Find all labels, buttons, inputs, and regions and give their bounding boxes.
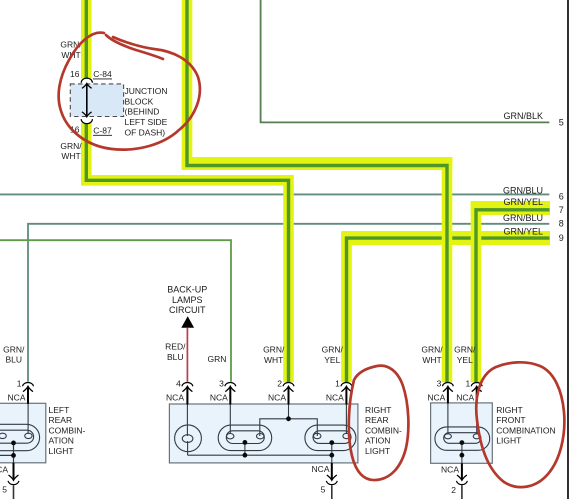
svg-text:LEFT: LEFT	[49, 405, 70, 415]
svg-text:2: 2	[277, 378, 282, 388]
svg-text:1: 1	[465, 378, 470, 388]
right rear lamp stadium 2	[305, 425, 356, 451]
svg-text:BLOCK: BLOCK	[125, 96, 154, 106]
svg-text:LAMPS: LAMPS	[172, 295, 203, 305]
left rear combination light box	[0, 403, 46, 463]
svg-text:YEL: YEL	[457, 355, 473, 365]
svg-text:WHT: WHT	[422, 355, 441, 365]
svg-text:16: 16	[70, 69, 80, 79]
left rear lamp stadium	[0, 403, 40, 463]
svg-text:REAR: REAR	[49, 415, 73, 425]
svg-text:NCA: NCA	[166, 393, 184, 403]
svg-text:ATION: ATION	[365, 436, 390, 446]
svg-text:NCA: NCA	[427, 393, 445, 403]
junction dots right rear	[286, 416, 291, 421]
svg-text:COMBIN-: COMBIN-	[49, 425, 86, 435]
svg-text:7: 7	[559, 205, 564, 215]
red annotation tail	[106, 35, 163, 59]
svg-text:NCA: NCA	[8, 393, 26, 403]
wire GRN/BLK to terminal 5	[261, 0, 550, 122]
bottom pin connector left rear cavity 5	[8, 463, 19, 499]
svg-text:1: 1	[335, 378, 340, 388]
svg-text:NCA: NCA	[326, 393, 344, 403]
svg-text:COMBINATION: COMBINATION	[496, 425, 555, 435]
svg-text:LEFT SIDE: LEFT SIDE	[125, 117, 168, 127]
svg-text:1: 1	[17, 378, 22, 388]
svg-text:9: 9	[559, 233, 564, 243]
svg-text:GRN/: GRN/	[3, 344, 25, 354]
right rear lamp stadium 1	[218, 425, 272, 451]
svg-text:GRN/: GRN/	[421, 345, 443, 355]
red annotation circle around junction block	[59, 33, 200, 150]
pin connector right rear pin 2	[283, 382, 294, 404]
svg-text:RIGHT: RIGHT	[365, 405, 391, 415]
right front combination light box	[431, 403, 493, 463]
pin connector right rear pin 4	[182, 382, 193, 404]
right front internal wiring	[448, 403, 477, 463]
svg-text:GRN/YEL: GRN/YEL	[503, 197, 543, 207]
wire GRN/YEL highlighted terminal 7 to right front pin 1	[471, 202, 550, 382]
svg-text:BLU: BLU	[6, 355, 23, 365]
junction dots right front	[460, 440, 465, 445]
wire GRN/YEL highlighted terminal 9 to right rear pin 1	[341, 232, 550, 382]
svg-text:GRN/: GRN/	[454, 345, 476, 355]
svg-text:5: 5	[2, 485, 7, 495]
svg-text:GRN: GRN	[208, 354, 227, 364]
svg-text:5: 5	[559, 117, 564, 127]
svg-text:WHT: WHT	[264, 355, 283, 365]
svg-text:YEL: YEL	[324, 355, 340, 365]
svg-text:OF DASH): OF DASH)	[125, 127, 166, 137]
svg-text:6: 6	[559, 191, 564, 201]
svg-text:NCA: NCA	[268, 393, 286, 403]
wire GRN/BLU terminal 8 to left rear pin 1	[28, 224, 549, 382]
right front lamp stadium	[435, 427, 490, 450]
svg-text:GRN/: GRN/	[322, 345, 344, 355]
junction block feed-through arrow C-84 to C-87	[82, 83, 92, 116]
wire GRN to right rear pin 3	[0, 240, 231, 382]
svg-text:GRN/BLU: GRN/BLU	[503, 213, 543, 223]
wire GRN/WHT highlighted upper segment into junction block	[81, 0, 92, 79]
bottom pin connector right front cavity 2	[456, 463, 467, 499]
svg-text:NCA: NCA	[456, 393, 474, 403]
svg-text:4: 4	[176, 378, 181, 388]
pin connector right rear pin 1	[341, 382, 352, 404]
pin connector right rear pin 3	[225, 382, 236, 404]
svg-text:LIGHT: LIGHT	[496, 436, 521, 446]
bottom pin connector right rear cavity 5	[326, 463, 337, 499]
svg-text:GRN/: GRN/	[60, 141, 82, 151]
page border right	[567, 0, 569, 499]
wire GRN/WHT highlighted from top to right front pin 3	[182, 0, 453, 382]
svg-text:NCA: NCA	[312, 464, 330, 474]
svg-text:LIGHT: LIGHT	[365, 446, 390, 456]
svg-text:REAR: REAR	[365, 415, 389, 425]
right rear internal wiring	[187, 404, 346, 463]
svg-text:GRN/BLU: GRN/BLU	[503, 185, 543, 195]
svg-text:COMBIN-: COMBIN-	[365, 425, 402, 435]
svg-text:BLU: BLU	[167, 352, 184, 362]
svg-text:RIGHT: RIGHT	[496, 405, 522, 415]
svg-text:GRN/: GRN/	[263, 345, 285, 355]
svg-text:2: 2	[451, 485, 456, 495]
red annotation circle around right front label	[476, 362, 564, 487]
junction block dashed box	[70, 84, 123, 117]
red annotation circle around right rear label	[349, 366, 409, 480]
arrow from back-up lamps circuit	[181, 316, 194, 328]
svg-text:GRN/YEL: GRN/YEL	[503, 226, 543, 236]
connector C-87 arc	[81, 119, 92, 124]
svg-text:CIRCUIT: CIRCUIT	[169, 305, 206, 315]
svg-text:(BEHIND: (BEHIND	[125, 107, 160, 117]
svg-text:C-84: C-84	[93, 69, 112, 79]
svg-text:3: 3	[219, 378, 224, 388]
wire RED/BLU to right rear pin 4	[186, 328, 188, 382]
pin connector right front pin 3	[442, 382, 453, 403]
pin connector right front pin 1	[471, 382, 482, 403]
svg-text:WHT: WHT	[61, 151, 80, 161]
pin connector left rear pin 1	[23, 382, 34, 403]
right rear lamp circle	[175, 425, 202, 452]
wire GRN/BLU to terminal 6	[0, 193, 549, 195]
svg-text:8: 8	[559, 219, 564, 229]
svg-text:LIGHT: LIGHT	[49, 446, 74, 456]
svg-text:RED/: RED/	[165, 342, 186, 352]
connector C-84 arc	[81, 78, 92, 83]
svg-text:BACK-UP: BACK-UP	[167, 284, 207, 294]
svg-text:NCA: NCA	[0, 464, 8, 474]
junction dots left rear	[11, 441, 16, 446]
svg-text:C-87: C-87	[93, 126, 112, 136]
svg-text:NCA: NCA	[441, 465, 459, 475]
svg-text:GRN/BLK: GRN/BLK	[503, 111, 543, 121]
svg-text:ATION: ATION	[49, 436, 74, 446]
svg-text:5: 5	[321, 485, 326, 495]
svg-text:NCA: NCA	[210, 393, 228, 403]
svg-text:3: 3	[437, 378, 442, 388]
wire GRN/WHT highlighted from junction block to right rear pin 2	[86, 123, 288, 382]
svg-text:JUNCTION: JUNCTION	[125, 86, 168, 96]
svg-text:FRONT: FRONT	[496, 415, 525, 425]
right rear combination light box	[169, 404, 358, 463]
